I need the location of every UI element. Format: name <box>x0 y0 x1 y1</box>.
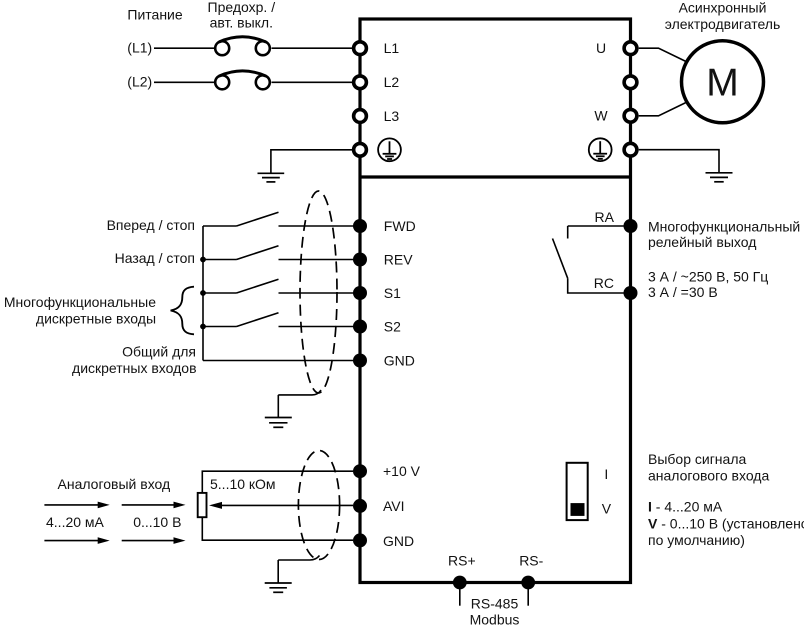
svg-text:GND: GND <box>383 533 414 549</box>
svg-text:RS-: RS- <box>519 553 543 569</box>
svg-text:4...20 мА: 4...20 мА <box>46 514 105 530</box>
svg-text:S2: S2 <box>384 318 401 334</box>
svg-text:5...10 кОм: 5...10 кОм <box>210 476 276 492</box>
svg-text:(L1): (L1) <box>127 40 152 56</box>
svg-text:U: U <box>596 40 606 56</box>
svg-text:+10 V: +10 V <box>383 463 421 479</box>
svg-text:L2: L2 <box>384 74 400 90</box>
svg-text:RS-485: RS-485 <box>471 596 519 612</box>
svg-text:RC: RC <box>594 275 614 291</box>
svg-text:дискретных входов: дискретных входов <box>72 360 196 376</box>
svg-text:Асинхронный: Асинхронный <box>679 0 767 16</box>
svg-text:AVI: AVI <box>383 498 405 514</box>
svg-text:Вперед / стоп: Вперед / стоп <box>107 217 195 233</box>
svg-text:FWD: FWD <box>384 218 416 234</box>
svg-text:3 А / ~250 В, 50 Гц: 3 А / ~250 В, 50 Гц <box>648 269 768 285</box>
svg-text:электродвигатель: электродвигатель <box>665 16 781 32</box>
svg-text:L1: L1 <box>384 40 400 56</box>
svg-text:релейный выход: релейный выход <box>648 234 756 250</box>
svg-text:3 А / =30 В: 3 А / =30 В <box>648 284 718 300</box>
svg-text:M: M <box>706 62 739 105</box>
svg-text:по умолчанию): по умолчанию) <box>648 532 745 548</box>
svg-text:авт. выкл.: авт. выкл. <box>210 15 273 31</box>
svg-text:S1: S1 <box>384 285 401 301</box>
svg-text:Многофункциональный: Многофункциональный <box>648 219 800 235</box>
svg-text:I: I <box>604 466 608 482</box>
svg-text:REV: REV <box>384 251 413 267</box>
svg-text:RS+: RS+ <box>448 553 476 569</box>
svg-text:дискретные входы: дискретные входы <box>36 311 156 327</box>
svg-text:W: W <box>594 108 608 124</box>
svg-text:Назад / стоп: Назад / стоп <box>115 250 195 266</box>
svg-text:GND: GND <box>384 352 415 368</box>
svg-text:Выбор сигнала: Выбор сигнала <box>648 451 746 467</box>
svg-text:V: V <box>602 500 612 516</box>
svg-text:Modbus: Modbus <box>470 612 520 626</box>
svg-text:аналогового входа: аналогового входа <box>648 468 769 484</box>
svg-text:Общий для: Общий для <box>122 344 196 360</box>
svg-text:Аналоговый вход: Аналоговый вход <box>58 476 171 492</box>
svg-text:Предохр. /: Предохр. / <box>208 0 276 15</box>
svg-text:Многофункциональные: Многофункциональные <box>4 294 156 310</box>
svg-text:(L2): (L2) <box>127 74 152 90</box>
svg-text:V - 0...10 В (установлено: V - 0...10 В (установлено <box>648 516 804 532</box>
svg-text:I - 4...20 мА: I - 4...20 мА <box>648 499 723 515</box>
svg-text:0...10 В: 0...10 В <box>133 514 181 530</box>
svg-text:L3: L3 <box>384 108 400 124</box>
svg-text:RA: RA <box>595 209 615 225</box>
svg-text:Питание: Питание <box>127 6 182 22</box>
